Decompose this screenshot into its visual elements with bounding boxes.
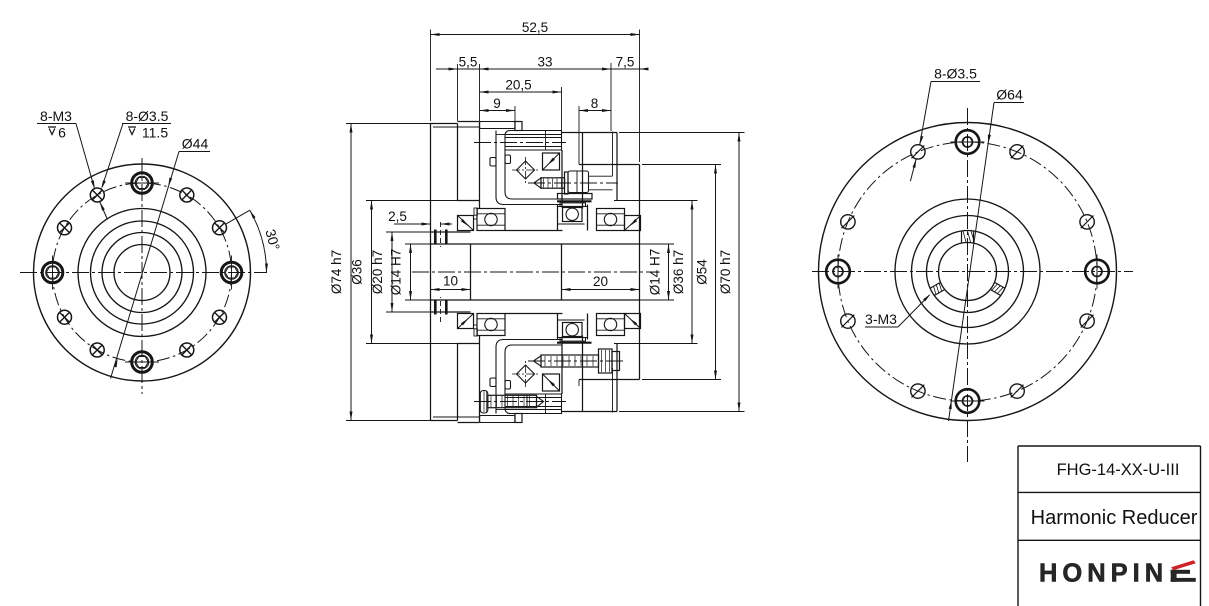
right view counterbore hole S — [951, 389, 985, 413]
dimension phi14 H7 right — [648, 244, 671, 300]
left view small hole at 330 deg — [213, 310, 227, 324]
seal box upper right — [625, 216, 641, 231]
dimension phi14 H7 left — [389, 244, 413, 300]
section centerline axis — [412, 271, 658, 273]
flange left face — [430, 124, 432, 421]
left view small hole at 120 deg — [90, 188, 104, 202]
dimension 8 — [579, 63, 611, 158]
phi14 bore top line — [431, 243, 640, 245]
dimension 9 — [480, 96, 516, 121]
svg-text:8-Ø3.5: 8-Ø3.5 — [934, 66, 977, 82]
cup left wall inner — [505, 150, 562, 199]
left view circle step 3 — [91, 221, 194, 324]
svg-text:20: 20 — [593, 274, 608, 289]
bottom screw in section — [480, 391, 543, 414]
coupling lower rect — [560, 203, 586, 207]
seal box upper mid — [543, 153, 560, 170]
svg-text:HONPIN: HONPIN — [1039, 560, 1168, 588]
svg-text:Ø74 h7: Ø74 h7 — [329, 250, 344, 294]
right view outer circle — [819, 123, 1117, 421]
spline tab left — [490, 158, 496, 167]
cup rim top line — [458, 121, 480, 123]
wave bearing — [563, 208, 583, 222]
svg-text:5,5: 5,5 — [459, 55, 478, 70]
cap step block — [515, 122, 522, 131]
web left vertical — [470, 244, 472, 300]
dimension phi54 — [695, 165, 718, 380]
svg-text:2,5: 2,5 — [388, 209, 407, 224]
M3 notch at 330 deg — [991, 283, 1005, 296]
svg-text:Ø20 h7: Ø20 h7 — [370, 250, 385, 294]
housing phi54 step edge — [579, 164, 640, 166]
cross roller diamond — [517, 161, 535, 179]
flexspline rim line — [496, 134, 505, 136]
circlip bar 2 — [445, 230, 448, 244]
right view small hole at 337.5 deg — [1080, 314, 1094, 328]
svg-text:9: 9 — [493, 96, 501, 111]
M3 notch at 210 deg — [930, 283, 944, 296]
svg-text:52,5: 52,5 — [522, 20, 548, 35]
label 8-phi3.5 depth 11.5 — [122, 108, 171, 141]
right view circle r72 — [895, 199, 1040, 344]
dimension 20,5 — [480, 64, 562, 130]
center bearing bracket left — [557, 205, 559, 231]
left view socket head screw hole N — [125, 173, 159, 194]
svg-text:8-Ø3.5: 8-Ø3.5 — [126, 108, 169, 124]
hub bore step vertical — [545, 131, 547, 151]
right view horizontal centerline — [812, 271, 1133, 273]
hub inner line 2 — [505, 137, 562, 139]
coupling thick bar — [557, 200, 592, 202]
right view small hole at 22.5 deg — [1080, 215, 1094, 229]
dimension 2,5 circlip groove — [388, 209, 452, 226]
svg-text:8: 8 — [591, 96, 599, 111]
keyway slot with hatch — [962, 231, 974, 243]
leader 8-M3 — [76, 124, 95, 190]
dimension 52,5 overall — [431, 20, 640, 162]
flange chamfer line — [433, 126, 480, 128]
left view small hole at 30 deg — [213, 221, 227, 235]
housing step inner vertical — [612, 132, 614, 177]
right view small hole at 157.5 deg — [841, 215, 855, 229]
hub right vertical — [561, 150, 563, 208]
svg-text:FHG-14-XX-U-III: FHG-14-XX-U-III — [1057, 461, 1180, 479]
svg-text:Ø54: Ø54 — [695, 259, 710, 285]
circlip center dashed — [440, 222, 442, 247]
left view vertical centerline — [141, 158, 143, 394]
left view socket head screw hole W — [42, 256, 63, 290]
dimension phi20 h7 — [370, 232, 394, 312]
title block frame — [1018, 446, 1201, 606]
cup left wall outer — [496, 131, 562, 205]
left view small hole at 150 deg — [58, 221, 72, 235]
top cap — [480, 122, 516, 129]
wave generator hub block — [505, 131, 562, 151]
flange top edge — [431, 123, 458, 125]
left view outer circle (flange OD) — [34, 164, 251, 381]
left view horizontal centerline — [20, 272, 267, 274]
upper auxiliary dashdot axis — [474, 142, 566, 144]
dimension phi36 h7 right — [671, 201, 694, 344]
label phi64 with diameter leader — [949, 87, 1025, 422]
right view bore circle — [939, 243, 997, 301]
housing left face — [582, 133, 584, 209]
upper fastener screw in section — [528, 171, 618, 199]
label 8-M3 depth 6 — [37, 108, 76, 141]
left view circle phi44 register — [78, 209, 206, 337]
svg-text:Ø36: Ø36 — [350, 259, 365, 285]
HONPINE logo — [1039, 560, 1196, 588]
housing top edge — [562, 132, 618, 134]
diamond crosshair h — [512, 169, 539, 171]
seal-bearing gap tab upper — [474, 208, 477, 215]
right view small hole at 292.5 deg — [1010, 384, 1024, 398]
right view counterbore hole E — [1085, 255, 1109, 289]
hub top edge phi36 — [458, 200, 480, 202]
bracket lower line — [558, 223, 585, 225]
left bearing — [477, 209, 505, 231]
dimension 10 bore depth — [431, 274, 471, 292]
left view small hole at 210 deg — [58, 310, 72, 324]
right view small hole at 67.5 deg — [1010, 145, 1024, 159]
svg-text:6: 6 — [58, 125, 66, 141]
left view small hole at 240 deg — [90, 343, 104, 357]
svg-text:3-M3: 3-M3 — [865, 311, 897, 327]
dimension phi70 h7 — [718, 133, 741, 412]
right view vertical centerline — [967, 108, 969, 462]
right face vertical — [639, 165, 641, 380]
svg-text:Ø70 h7: Ø70 h7 — [718, 250, 733, 294]
svg-text:Ø36 h7: Ø36 h7 — [671, 250, 686, 294]
housing ext vertical — [578, 158, 580, 165]
spline tab right — [505, 155, 511, 164]
left view small hole at 60 deg — [180, 188, 194, 202]
right view hub circle — [927, 231, 1009, 313]
seal-bearing gap tab lower — [474, 329, 477, 336]
dimension 20 bore depth — [562, 274, 640, 291]
svg-text:Harmonic Reducer: Harmonic Reducer — [1031, 507, 1198, 529]
svg-text:Ø14 H7: Ø14 H7 — [648, 249, 663, 296]
circlip bar 1 — [434, 230, 437, 244]
center bearing bracket top — [558, 206, 588, 208]
left view socket head screw hole S — [125, 352, 159, 373]
dimension row 5,5 33 7,5 — [436, 55, 649, 122]
dimension phi74 h7 — [329, 124, 353, 421]
svg-text:11.5: 11.5 — [142, 125, 168, 141]
30 degree angular dimension — [226, 210, 284, 272]
lower fastener screw in section — [528, 349, 626, 373]
svg-text:8-M3: 8-M3 — [40, 108, 72, 124]
housing step vertical — [616, 133, 618, 201]
label phi44 — [179, 136, 210, 152]
center bearing bracket right — [587, 205, 589, 231]
left view circle step 2 — [102, 233, 182, 313]
svg-text:33: 33 — [537, 55, 552, 70]
left view socket head screw hole E — [221, 256, 242, 290]
diamond crosshair v — [525, 157, 527, 183]
flange right face upper — [457, 124, 459, 201]
left view bolt circle (dashed) — [53, 183, 232, 362]
svg-text:Ø64: Ø64 — [996, 87, 1023, 103]
left view bore circle — [114, 245, 170, 301]
svg-text:7,5: 7,5 — [616, 55, 635, 70]
phi44 diameter leader line with arrows — [111, 152, 180, 379]
cup outer edge line — [479, 122, 481, 209]
seal box upper left — [458, 216, 474, 231]
phi20 stub top line — [431, 231, 471, 233]
left view small hole at 300 deg — [180, 343, 194, 357]
web right vertical — [561, 244, 563, 300]
svg-text:Ø44: Ø44 — [182, 136, 209, 152]
hub shoulder line — [505, 230, 563, 232]
dimension phi36 — [350, 201, 374, 344]
seal box lower left — [458, 314, 474, 329]
hub inner line 1 — [505, 134, 562, 136]
leader 8-phi3.5 — [100, 124, 123, 220]
hub lower line — [505, 146, 562, 148]
right bearing — [597, 209, 625, 231]
right view bolt circle phi64 (dashed) — [838, 142, 1097, 401]
svg-text:20,5: 20,5 — [505, 78, 531, 93]
right view circle r56 — [912, 216, 1024, 328]
label 8-phi3.5 with arrows — [910, 66, 980, 182]
seal box lower right — [625, 314, 641, 329]
right view small hole at 247.5 deg — [911, 384, 925, 398]
right view counterbore hole N — [951, 130, 985, 154]
label 3-M3 with leader — [865, 294, 931, 327]
right view counterbore hole W — [826, 255, 850, 289]
right view small hole at 112.5 deg — [911, 145, 925, 159]
right view small hole at 202.5 deg — [841, 314, 855, 328]
svg-text:10: 10 — [443, 274, 458, 289]
svg-text:Ø14 H7: Ø14 H7 — [389, 249, 404, 296]
